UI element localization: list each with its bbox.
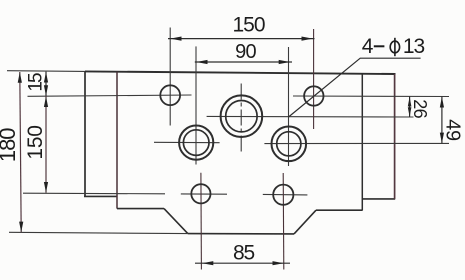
svg-text:150: 150 (24, 125, 47, 159)
plate outline right edge (394, 74, 396, 199)
plate inner right vertical edge (361, 74, 363, 211)
dimension 15 left line (44, 72, 48, 96)
centerline large hole vertical (240, 84, 242, 153)
leader line 4-phi13 (289, 58, 421, 117)
extension line bottom left (9, 232, 188, 233)
plate inner left vertical edge (116, 72, 118, 209)
centerline medium right hole vertical (288, 47, 290, 166)
plate step right horizontal (362, 198, 395, 200)
centerline upper-right hole vertical (313, 29, 315, 129)
svg-text:150: 150 (232, 14, 264, 37)
svg-text:49: 49 (441, 119, 463, 141)
hole lower-left phi13 (191, 184, 210, 203)
centerline upper-left hole vertical (169, 28, 171, 126)
hole lower-right phi13 (273, 185, 293, 205)
plate right chamfer diagonal (294, 210, 316, 234)
medium right hole inner (277, 132, 301, 156)
dimension 150 left line (44, 96, 48, 193)
dimension 90 line (195, 60, 292, 64)
svg-text:13: 13 (403, 35, 425, 58)
crosshair lower-left hole horizontal (181, 193, 227, 195)
row line lower left (23, 192, 165, 195)
hole upper-right phi13 (304, 86, 323, 105)
svg-text:26: 26 (410, 99, 430, 118)
svg-text:4: 4 (362, 35, 374, 58)
svg-text:85: 85 (233, 242, 254, 265)
centerline large hole horizontal (207, 115, 414, 118)
plate bottom edge (188, 233, 294, 235)
dimension 85 line (195, 261, 290, 265)
svg-text:15: 15 (26, 73, 47, 92)
hole upper-left phi13 (160, 85, 180, 105)
plate lower-left horizontal edge (117, 208, 164, 210)
row line through upper right hole (293, 95, 449, 98)
medium right hole outer (272, 127, 307, 162)
medium left hole inner (183, 130, 209, 156)
dimension 150 top line (168, 37, 315, 41)
plate outline left edge (84, 71, 86, 196)
centerline lower-right hole vertical (282, 173, 285, 270)
plate lower-right horizontal edge (316, 209, 363, 211)
extension line top left (7, 70, 85, 73)
centerline medium right hole horizontal (264, 142, 449, 144)
row line through upper holes left (28, 95, 192, 96)
large center hole outer (221, 95, 263, 137)
dimension 180 line (18, 72, 24, 232)
centerline medium left hole horizontal (154, 141, 220, 143)
dimension 49 line (440, 97, 444, 144)
large center hole inner (226, 101, 257, 132)
centerline lower-left hole vertical (200, 173, 203, 270)
plate outline top edge (85, 71, 396, 74)
plate left chamfer diagonal (164, 209, 188, 234)
svg-text:180: 180 (0, 128, 20, 162)
centerline medium left hole vertical (195, 46, 197, 164)
plate step left horizontal (84, 195, 118, 197)
medium left hole outer (179, 126, 213, 160)
crosshair lower-right hole horizontal (263, 193, 308, 196)
label 4-phi13 (362, 35, 425, 58)
dimension 26 line (408, 97, 412, 118)
svg-text:90: 90 (235, 41, 256, 63)
